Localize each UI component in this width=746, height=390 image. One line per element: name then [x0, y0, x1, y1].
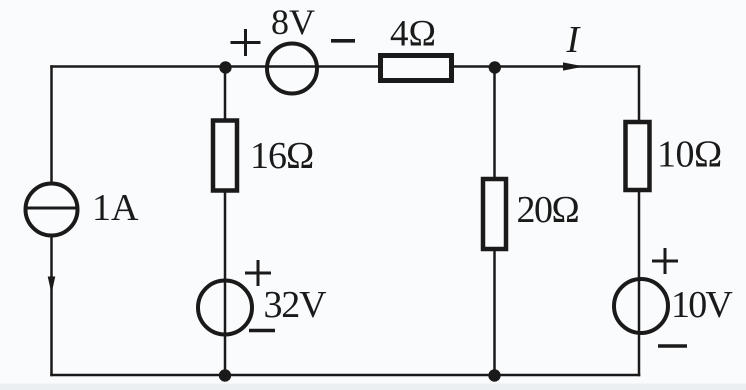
wire right vertical: [638, 67, 641, 376]
plus sign of 32V: [245, 260, 271, 286]
minus sign of 32V: [249, 329, 275, 333]
wire left vertical: [50, 67, 53, 376]
svg-text:8V: 8V: [271, 2, 315, 42]
resistor R4 10ohm: [626, 122, 650, 190]
voltage source U3 10V circle: [614, 279, 668, 333]
wire middle-left branch (through 16 ohm and 32V): [224, 67, 227, 376]
plus sign of 8V: [231, 29, 261, 56]
node C dot (bottom-left junction): [219, 369, 231, 381]
minus sign of 8V: [331, 39, 355, 43]
resistor R2 16ohm: [213, 121, 237, 191]
current arrow I on top wire: [563, 62, 584, 70]
node B dot (top-right junction): [489, 61, 501, 73]
minus sign of 10V: [658, 344, 687, 348]
resistor R1 4ohm: [381, 56, 452, 81]
svg-text:I: I: [566, 19, 582, 61]
wire bottom: [52, 374, 640, 377]
plus sign of 10V: [652, 248, 678, 274]
current source bar: [27, 207, 77, 210]
node A dot (top-left junction): [219, 61, 231, 73]
current source IS 1A circle: [26, 184, 78, 236]
wire top (node top-left to top-right corner): [52, 65, 640, 68]
svg-text:10Ω: 10Ω: [657, 134, 722, 176]
voltage source U2 32V circle: [198, 281, 252, 335]
voltage source U1 8V circle: [267, 44, 317, 94]
svg-text:4Ω: 4Ω: [390, 14, 436, 55]
current arrow of 1A source (downward): [48, 277, 56, 294]
resistor R3 20ohm: [483, 179, 506, 249]
svg-text:20Ω: 20Ω: [517, 189, 579, 231]
svg-text:1A: 1A: [92, 187, 139, 229]
bottom grey strip: [0, 384, 746, 390]
svg-text:10V: 10V: [671, 284, 733, 326]
node D dot (bottom-right junction): [488, 369, 500, 381]
wire middle-right branch (through 20 ohm): [493, 67, 496, 376]
svg-text:32V: 32V: [264, 284, 328, 326]
svg-text:16Ω: 16Ω: [250, 135, 313, 177]
